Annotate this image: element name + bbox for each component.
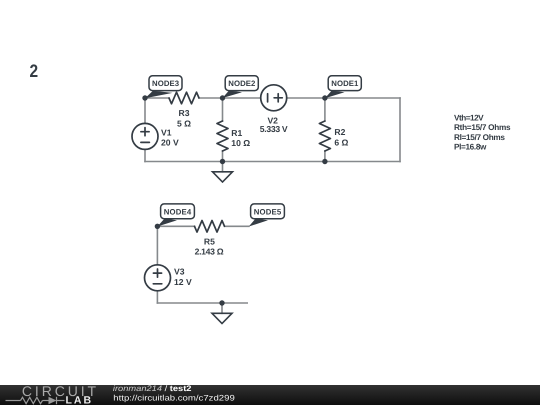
svg-text:V3: V3 xyxy=(174,266,185,276)
svg-text:NODE5: NODE5 xyxy=(254,207,282,216)
wire node4 to V3 top xyxy=(156,226,158,264)
voltage source V1 minus sign xyxy=(141,141,150,143)
node label box NODE1 xyxy=(328,76,361,91)
resistor R5 zigzag xyxy=(195,221,225,233)
resistor R3 zigzag xyxy=(169,92,199,104)
footer bar xyxy=(0,385,540,405)
wire node3 to R3 xyxy=(145,97,169,99)
wire ground stub lower circuit xyxy=(221,303,223,313)
node label box NODE4 xyxy=(161,204,195,219)
wire node1 to R2 top xyxy=(324,98,326,121)
node dot NODE2 xyxy=(220,95,225,100)
svg-text:LAB: LAB xyxy=(66,395,94,405)
svg-text:5 Ω: 5 Ω xyxy=(177,118,191,128)
wire ground stub top circuit xyxy=(222,162,224,172)
wire node1 to right corner xyxy=(325,97,400,99)
junction dot R2 bottom xyxy=(322,159,327,164)
svg-text:R5: R5 xyxy=(204,236,215,246)
wire V1 bottom to rail xyxy=(144,149,146,161)
wire R5 to node5 xyxy=(225,225,249,227)
junction dot R1 bottom xyxy=(220,159,225,164)
voltage source V2 plus sign xyxy=(274,94,282,102)
wire V3 bottom to rail xyxy=(156,291,158,303)
logo wire left xyxy=(6,400,21,402)
logo diode cathode bar xyxy=(56,397,58,404)
label tail NODE2 xyxy=(223,91,243,99)
svg-text:NODE2: NODE2 xyxy=(228,79,256,88)
wire R1 bottom to rail xyxy=(222,151,224,162)
svg-text:6 Ω: 6 Ω xyxy=(334,138,348,148)
node label box NODE5 xyxy=(251,204,285,219)
svg-text:2.143 Ω: 2.143 Ω xyxy=(195,247,224,257)
wire V2 to node1 xyxy=(287,97,325,99)
node dot NODE1 xyxy=(322,95,327,100)
ground top circuit triangle xyxy=(213,172,233,182)
svg-text:Rth=15/7 Ohms: Rth=15/7 Ohms xyxy=(454,123,511,132)
label tail NODE3 xyxy=(145,91,173,99)
svg-text:R3: R3 xyxy=(179,108,190,118)
node dot NODE4 xyxy=(155,224,160,229)
wire node3 to V1 top xyxy=(144,98,146,123)
voltage source V3 plus sign xyxy=(153,269,161,277)
voltage source V1 plus sign xyxy=(141,128,149,136)
logo wire right xyxy=(57,400,65,402)
svg-text:R1: R1 xyxy=(231,128,242,138)
label tail NODE1 xyxy=(325,91,345,99)
label tail NODE5 xyxy=(249,219,268,227)
label tail NODE4 xyxy=(157,219,177,227)
svg-text:NODE3: NODE3 xyxy=(152,79,180,88)
voltage source V2 minus bar xyxy=(267,94,269,102)
wire bottom rail lower circuit xyxy=(157,302,247,304)
wire bottom rail top circuit xyxy=(145,161,400,163)
wire node2 to R1 top xyxy=(222,98,224,121)
svg-text:NODE1: NODE1 xyxy=(331,79,359,88)
node label box NODE2 xyxy=(225,76,258,91)
wire right branch down xyxy=(399,98,401,162)
wire R2 bottom to rail xyxy=(324,151,326,162)
voltage source V2 circle xyxy=(261,85,287,111)
svg-text:5.333 V: 5.333 V xyxy=(260,124,288,134)
svg-text:NODE4: NODE4 xyxy=(164,207,192,216)
voltage source V1 circle xyxy=(132,123,158,149)
svg-text:R2: R2 xyxy=(334,127,345,137)
logo resistor zigzag xyxy=(21,397,43,403)
junction dot lower ground xyxy=(219,300,224,305)
svg-text:Pl=16.8w: Pl=16.8w xyxy=(454,143,487,152)
voltage source V3 minus sign xyxy=(153,283,162,285)
svg-text:ironman214 / test2: ironman214 / test2 xyxy=(113,384,192,393)
wire R3 to node2 xyxy=(199,97,223,99)
ground lower circuit triangle xyxy=(212,313,232,323)
node label box NODE3 xyxy=(149,76,182,91)
svg-text:http://circuitlab.com/c7zd299: http://circuitlab.com/c7zd299 xyxy=(113,393,235,402)
svg-text:20 V: 20 V xyxy=(161,138,179,148)
logo diode triangle xyxy=(49,397,57,404)
logo wire mid xyxy=(43,400,49,402)
wire node2 to V2 xyxy=(223,97,261,99)
voltage source V3 circle xyxy=(145,265,171,291)
wire node4 to R5 xyxy=(157,225,194,227)
svg-text:12 V: 12 V xyxy=(174,277,192,287)
svg-text:V1: V1 xyxy=(161,128,172,138)
node dot NODE3 xyxy=(142,95,147,100)
svg-text:Vth=12V: Vth=12V xyxy=(454,113,484,122)
resistor R2 zigzag xyxy=(319,121,330,151)
svg-text:10 Ω: 10 Ω xyxy=(231,138,250,148)
resistor R1 zigzag xyxy=(217,121,228,151)
svg-text:2: 2 xyxy=(30,61,39,81)
svg-text:Rl=15/7 Ohms: Rl=15/7 Ohms xyxy=(454,133,505,142)
